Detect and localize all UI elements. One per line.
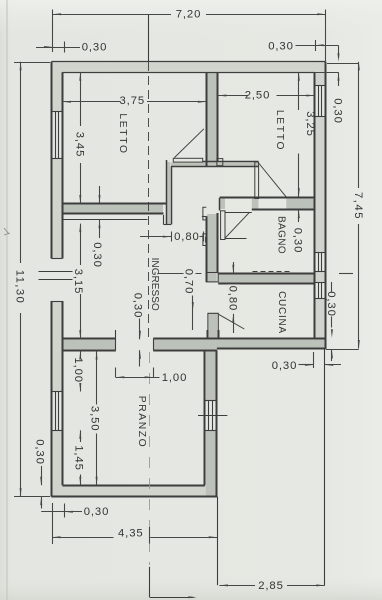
dim 2,50 letto-right (218, 95, 248, 97)
dim 3,25 letto-right vertical (298, 72, 300, 110)
dim 4,35 bottom (52, 537, 114, 539)
door bagno: swing triangle base (225, 238, 247, 240)
wall: partition between bedrooms (letto left / letto right) (206, 72, 208, 166)
wall: cucina west wall lines (207, 330, 209, 339)
door letto-right: swing line (259, 163, 287, 197)
jamb block at 0,70 opening (south end of ingresso east wall) (206, 273, 218, 282)
pranzo door jamb extension (115, 330, 117, 339)
wall: letto-right south / bagno north - upper line (220, 197, 315, 199)
door letto-right: leaf (255, 162, 259, 199)
entrance door opening jamb lines in left wall (51, 258, 62, 260)
dim 0,80 corridor (140, 236, 171, 238)
svg-text:0,30: 0,30 (325, 291, 337, 317)
wall: bottom exterior (pranzo) outer line (51, 496, 217, 498)
dim 2,85 bottom terrace (219, 585, 255, 587)
door letto-left: leaf (open) (173, 158, 202, 162)
flue notch lower on bagno west wall (203, 234, 206, 246)
wall: letto-left south (ingresso north) top line (62, 203, 166, 205)
entrance door leaf lines (39, 271, 73, 273)
tick on right reference at bagno floor (339, 273, 353, 275)
wall: bagno south / cucina north upper line (218, 273, 315, 275)
svg-text:0,30: 0,30 (34, 439, 46, 465)
door bagno: leaf (221, 211, 225, 240)
svg-text:1,45: 1,45 (73, 445, 85, 471)
dim 0,30 pranzo north wall (133, 292, 145, 320)
dim 0,80 cucina door (233, 262, 235, 273)
wall: left exterior outer line (gaps: none) (51, 62, 53, 259)
svg-text:0,30: 0,30 (268, 40, 294, 52)
scan fold line left edge (6, 0, 8, 600)
terrace west boundary line (217, 497, 219, 586)
dim 0,70 ingresso-east opening (159, 273, 202, 275)
axis corner bracket with arrow (bottom) (149, 567, 151, 597)
svg-text:0,30: 0,30 (291, 228, 303, 254)
window W2 left wall lower (pranzo) hatch (55, 392, 57, 431)
dim 1,45 pranzo lower-left (80, 430, 82, 442)
dim 0,30 bottom-left horizontal (41, 511, 82, 513)
wall: pranzo east wall west line (204, 350, 206, 485)
wall: ingresso east wall west line (206, 216, 208, 282)
terrace east boundary line (324, 349, 326, 585)
dim 3,75 letto-left (62, 101, 120, 103)
svg-text:LETTO: LETTO (117, 113, 128, 154)
window W4 right wall (bagno) hatch (318, 252, 320, 272)
svg-text:0,30: 0,30 (272, 360, 298, 372)
dim 7,20 top (53, 14, 171, 16)
dim 11,30 far left (20, 62, 22, 263)
wall: left exterior inner line (62, 72, 64, 258)
dim 3,15 ingresso vertical (80, 224, 82, 265)
wall: pranzo north / cucina south band lower line (62, 350, 115, 352)
svg-text:0,30: 0,30 (332, 98, 344, 124)
wall: right exterior outer line (325, 62, 327, 349)
svg-text:0,80: 0,80 (174, 231, 200, 243)
window W6 centre tick (198, 415, 227, 417)
wall: corridor thin wall east line (171, 167, 173, 225)
window W1 left wall upper (letto) hatch (55, 111, 57, 158)
door bagno: head segment (225, 212, 252, 214)
svg-text:INGRESSO: INGRESSO (149, 258, 160, 311)
svg-text:2,85: 2,85 (258, 580, 284, 592)
svg-text:0,30: 0,30 (84, 506, 110, 518)
window W6 pranzo east wall hatch (208, 401, 210, 430)
svg-text:BAGNO: BAGNO (276, 216, 287, 254)
svg-text:0,30: 0,30 (91, 242, 103, 268)
svg-text:PRANZO: PRANZO (136, 396, 147, 449)
wall: top exterior (outer line) (51, 61, 325, 63)
junction block at partition foot (217, 159, 223, 166)
wall: pranzo north / cucina south band upper line (62, 338, 115, 340)
svg-text:11,30: 11,30 (14, 270, 26, 304)
door bagno: swing line (225, 213, 249, 238)
jamb block at cucina door (north end of cucina west wall) (208, 313, 218, 330)
svg-text:0,70: 0,70 (183, 269, 195, 295)
svg-text:3,50: 3,50 (88, 406, 100, 432)
svg-text:LETTO: LETTO (274, 110, 285, 151)
dim 0,30 bagno north wall (298, 210, 300, 219)
svg-text:3,45: 3,45 (73, 132, 85, 158)
small stray mark left margin (4, 228, 10, 235)
svg-text:1,00: 1,00 (162, 372, 188, 384)
dim 0,30 ingresso north wall (99, 186, 101, 204)
svg-text:1,00: 1,00 (72, 357, 84, 383)
wall: top exterior (inner line) (62, 72, 315, 74)
ingresso east wall top jog (202, 216, 206, 218)
svg-text:7,20: 7,20 (176, 9, 202, 21)
dim 0,30 right vertical at top wall (338, 45, 340, 58)
extension line right of top wall inner face (315, 72, 339, 74)
dim 0,30 top-left (36, 47, 53, 49)
bagno north wall west end cap (219, 198, 221, 211)
wall: letto-left south bottom line (62, 213, 163, 215)
window W3 right wall (letto right) hatch (318, 85, 320, 116)
wall: right exterior inner line (314, 72, 316, 337)
dashed lintel over cucina north-west (253, 271, 291, 273)
dim 1,00 pranzo door (116, 377, 160, 379)
svg-text:3,25: 3,25 (304, 111, 316, 137)
wall: door-head wall between bedrooms south (171, 166, 258, 168)
svg-text:3,15: 3,15 (72, 269, 84, 295)
wall: letto-right south / bagno north - lower line (252, 209, 315, 211)
wall: bagno south / cucina north lower line (218, 283, 315, 285)
wall: ingresso east wall east line (217, 213, 219, 273)
svg-text:2,50: 2,50 (245, 90, 271, 102)
window W5 right wall (cucina) hatch (318, 283, 320, 299)
wall: corridor thin wall west line (166, 160, 168, 225)
door cucina: swing line (219, 314, 245, 329)
wall: pranzo east wall east line (216, 350, 218, 496)
wall: bottom exterior (pranzo) inner line (62, 485, 205, 487)
flue notch upper on bagno west wall (203, 207, 206, 220)
dim 7,45 right (327, 63, 359, 65)
dim 3,50 pranzo vertical (96, 351, 98, 405)
svg-text:7,45: 7,45 (352, 192, 364, 220)
pranzo door jamb caps (115, 339, 117, 350)
ingresso north secondary line (63, 219, 148, 221)
corridor thin wall south cap (164, 224, 172, 226)
dim 1,00 pranzo upper-left (80, 351, 82, 357)
svg-text:4,35: 4,35 (118, 528, 144, 540)
svg-text:CUCINA: CUCINA (276, 291, 287, 334)
svg-text:0,80: 0,80 (227, 286, 239, 312)
door letto-left: swing line (174, 129, 204, 158)
svg-text:0,30: 0,30 (132, 293, 144, 319)
dim 3,45 letto-left vertical (80, 72, 82, 126)
svg-text:0,30: 0,30 (82, 41, 108, 53)
svg-text:3,75: 3,75 (120, 95, 146, 107)
cucina south wall outer line (217, 348, 326, 350)
